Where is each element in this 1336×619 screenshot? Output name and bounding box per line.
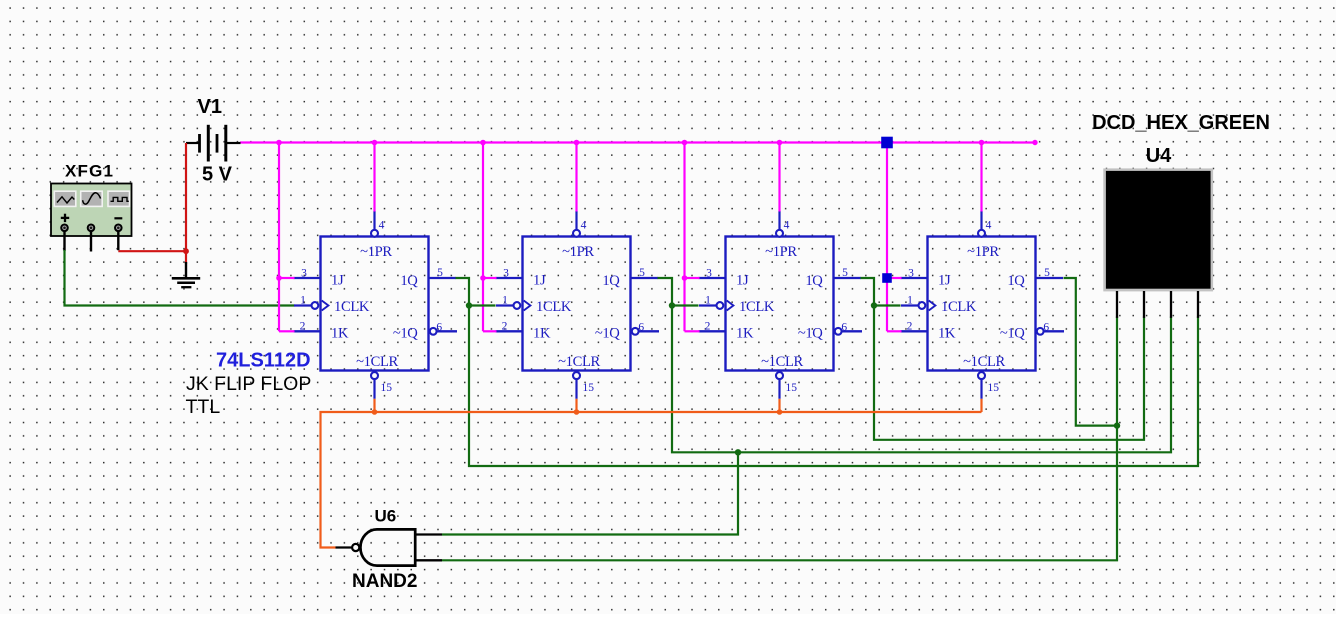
svg-text:NAND2: NAND2 (352, 571, 417, 592)
pin 1CLK bubble FF2 (514, 302, 521, 309)
svg-text:1Q: 1Q (805, 273, 823, 289)
svg-text:1K: 1K (736, 325, 754, 341)
node CLR bus junction FF1 (372, 409, 378, 415)
node rail junction PR FF1 (372, 140, 378, 146)
svg-text:1K: 1K (331, 325, 349, 341)
svg-text:~1Q: ~1Q (1000, 325, 1025, 341)
node FF4 Q / display pin1 junction (1114, 422, 1120, 428)
pin 5 stub 1Q FF2 (631, 277, 659, 279)
svg-text:~1Q: ~1Q (595, 325, 620, 341)
svg-text:~1Q: ~1Q (393, 325, 418, 341)
pin 1CLK bubble FF4 (919, 302, 926, 309)
node FF3 Q / FF4 CLK junction (871, 302, 877, 308)
pin 1 stub 1CLK FF2 (496, 304, 513, 306)
pin 5 stub 1Q FF4 (1036, 277, 1064, 279)
pin display 2 (1143, 291, 1145, 318)
pin 4 stub FF4 (980, 211, 982, 230)
wire ~1CLR to bus FF3 (orange) (778, 399, 780, 412)
svg-text:1: 1 (502, 295, 508, 307)
svg-text:15: 15 (988, 382, 1000, 394)
svg-text:~1PR: ~1PR (967, 244, 999, 260)
pin 2 stub 1K FF3 (699, 330, 726, 332)
pin 1 stub 1CLK FF4 (901, 304, 918, 306)
svg-text:5: 5 (1044, 267, 1050, 279)
svg-text:3: 3 (503, 267, 509, 279)
pin display 4 (1197, 291, 1199, 318)
pin 5 stub 1Q FF1 (429, 277, 457, 279)
svg-text:TTL: TTL (186, 396, 221, 418)
node CLR bus junction FF3 (777, 409, 783, 415)
pin 6 stub ~1Q FF2 (639, 330, 659, 332)
svg-text:JK FLIP FLOP: JK FLIP FLOP (186, 373, 311, 395)
wire VCC to ~1PR FF3 (magenta) (778, 143, 780, 212)
node red junction (183, 248, 189, 254)
svg-text:2: 2 (300, 320, 306, 332)
node J junction FF3 (682, 275, 688, 281)
pin 15 stub FF2 (575, 379, 577, 399)
wire VCC to 1J/1K FF1 (magenta) (279, 143, 295, 332)
pin ~1Q bubble FF2 (632, 328, 639, 335)
pin 1 stub 1CLK FF3 (699, 304, 716, 306)
svg-text:~1CLR: ~1CLR (356, 354, 398, 370)
svg-text:2: 2 (705, 320, 711, 332)
pin ~1CLR bubble FF2 (573, 372, 580, 379)
wire VCC to ~1PR FF1 (magenta) (373, 143, 375, 212)
node blue square on rail (881, 137, 893, 149)
svg-text:1CLK: 1CLK (334, 299, 370, 315)
pin 6 stub ~1Q FF1 (437, 330, 457, 332)
wire XFG1 terminal leads (65, 231, 119, 252)
wire VCC power rail (240, 141, 1035, 143)
node FF2 Q / FF3 CLK junction (669, 302, 675, 308)
wire NAND output to ~CLR bus (orange) (321, 412, 982, 548)
wire VCC to ~1PR FF2 (magenta) (575, 143, 577, 212)
wire battery negative to ground (red) (118, 143, 186, 264)
svg-text:U6: U6 (375, 507, 397, 526)
pin ~1PR bubble FF4 (978, 230, 985, 237)
svg-text:1J: 1J (331, 273, 344, 289)
svg-text:1: 1 (907, 295, 913, 307)
node NAND tap junction (735, 449, 741, 455)
pin 1CLK bubble FF1 (312, 302, 319, 309)
JK flip-flop 3 (74LS112D) (726, 237, 834, 371)
battery V1 (186, 125, 241, 162)
pin 1CLK bubble FF3 (717, 302, 724, 309)
svg-text:~1CLR: ~1CLR (963, 354, 1005, 370)
pin ~1CLR bubble FF1 (371, 372, 378, 379)
svg-text:15: 15 (381, 382, 393, 394)
svg-text:1: 1 (300, 295, 306, 307)
wire FF3 1Q to FF4 CLK and display pin2 (green) (861, 278, 1145, 440)
wire ~1CLR to bus FF2 (orange) (575, 399, 577, 412)
pin 4 stub FF2 (575, 211, 577, 230)
svg-text:6: 6 (638, 322, 644, 334)
pin 15 stub FF4 (980, 379, 982, 399)
wire FF1 1Q to FF2 CLK and display pin4 (green) (456, 278, 1199, 466)
pin 3 stub 1J FF2 (496, 277, 523, 279)
pin ~1PR bubble FF3 (776, 230, 783, 237)
wire VCC to 1J/1K FF2 (magenta) (483, 143, 497, 332)
wire FF4 1Q to display pin1 and NAND input B (green) (1064, 278, 1118, 426)
svg-text:4: 4 (784, 220, 790, 232)
svg-text:2: 2 (907, 320, 913, 332)
wire VCC to 1J/1K FF4 (magenta) (887, 143, 902, 332)
node rail junction PR FF3 (777, 140, 783, 146)
wire ~1CLR to bus FF4 (orange) (980, 399, 982, 412)
pin ~1CLR bubble FF3 (776, 372, 783, 379)
node rail junction JK FF3 (682, 140, 688, 146)
svg-text:1: 1 (705, 295, 711, 307)
svg-text:1Q: 1Q (400, 273, 418, 289)
wire VCC to ~1PR FF4 (magenta) (980, 143, 982, 212)
svg-text:4: 4 (379, 220, 385, 232)
node rail junction JK FF2 (480, 140, 486, 146)
JK flip-flop 1 (74LS112D) (321, 237, 429, 371)
svg-text:1J: 1J (533, 273, 546, 289)
svg-text:3: 3 (301, 267, 307, 279)
svg-text:3: 3 (908, 267, 914, 279)
nand gate U6 (336, 529, 443, 565)
function generator XFG1 (51, 184, 132, 237)
pin 1 stub 1CLK FF1 (294, 304, 311, 306)
node rail junction PR FF2 (574, 140, 580, 146)
svg-text:1Q: 1Q (1007, 273, 1025, 289)
pin 3 stub 1J FF1 (294, 277, 321, 279)
pin 5 stub 1Q FF3 (834, 277, 862, 279)
pin 2 stub 1K FF2 (496, 330, 523, 332)
svg-text:1CLK: 1CLK (536, 299, 572, 315)
svg-text:2: 2 (502, 320, 508, 332)
hex display U4 (1103, 168, 1213, 291)
svg-text:~1PR: ~1PR (765, 244, 797, 260)
node rail junction JK FF1 (276, 140, 282, 146)
node J junction FF1 (276, 275, 282, 281)
pin ~1CLR bubble FF4 (978, 372, 985, 379)
svg-text:1J: 1J (938, 273, 951, 289)
wire ~1CLR to bus FF1 (orange) (373, 399, 375, 412)
svg-text:~1CLR: ~1CLR (761, 354, 803, 370)
pin 6 stub ~1Q FF3 (842, 330, 862, 332)
wire XFG1 + output to CLK (green) (65, 250, 295, 306)
svg-text:V1: V1 (198, 96, 222, 118)
pin ~1PR bubble FF2 (573, 230, 580, 237)
svg-text:DCD_HEX_GREEN: DCD_HEX_GREEN (1092, 112, 1270, 134)
svg-text:5: 5 (437, 267, 443, 279)
pin ~1Q bubble FF4 (1037, 328, 1044, 335)
svg-text:5: 5 (639, 267, 645, 279)
wire FF2 Q to NAND input A (green) (442, 452, 738, 534)
svg-text:1J: 1J (736, 273, 749, 289)
pin 3 stub 1J FF4 (901, 277, 928, 279)
JK flip-flop 2 (74LS112D) (523, 237, 631, 371)
pin 2 stub 1K FF4 (901, 330, 928, 332)
svg-text:U4: U4 (1146, 145, 1172, 167)
svg-text:3: 3 (706, 267, 712, 279)
pin 4 stub FF3 (778, 211, 780, 230)
svg-text:6: 6 (841, 322, 847, 334)
node rail end (1032, 140, 1037, 145)
pin 15 stub FF1 (373, 379, 375, 399)
svg-text:6: 6 (436, 322, 442, 334)
svg-text:15: 15 (786, 382, 798, 394)
svg-text:74LS112D: 74LS112D (216, 350, 311, 372)
node blue square at FF4 1J (882, 273, 892, 283)
pin 15 stub FF3 (778, 379, 780, 399)
svg-text:1CLK: 1CLK (941, 299, 977, 315)
pin 3 stub 1J FF3 (699, 277, 726, 279)
pin 4 stub FF1 (373, 211, 375, 230)
svg-text:XFG1: XFG1 (65, 162, 114, 181)
svg-text:6: 6 (1043, 322, 1049, 334)
svg-text:~1CLR: ~1CLR (558, 354, 600, 370)
node rail junction PR FF4 (979, 140, 985, 146)
svg-text:5 V: 5 V (202, 164, 233, 186)
wire FF2 1Q to FF3 CLK and display pin3 (green) (658, 278, 1172, 452)
wire VCC to 1J/1K FF3 (magenta) (685, 143, 700, 332)
svg-text:15: 15 (583, 382, 595, 394)
pin ~1Q bubble FF3 (835, 328, 842, 335)
svg-text:~1PR: ~1PR (562, 244, 594, 260)
svg-text:1Q: 1Q (602, 273, 620, 289)
pin ~1Q bubble FF1 (430, 328, 437, 335)
svg-text:1K: 1K (938, 325, 956, 341)
svg-text:1K: 1K (533, 325, 551, 341)
pin 6 stub ~1Q FF4 (1044, 330, 1064, 332)
pin display 1 (1116, 291, 1118, 318)
JK flip-flop 4 (74LS112D) (928, 237, 1036, 371)
svg-text:4: 4 (986, 220, 992, 232)
node CLR bus junction FF2 (574, 409, 580, 415)
pin ~1PR bubble FF1 (371, 230, 378, 237)
node FF1 Q / FF2 CLK junction (466, 302, 472, 308)
svg-text:~1PR: ~1PR (360, 244, 392, 260)
node J junction FF2 (480, 275, 486, 281)
svg-text:5: 5 (842, 267, 848, 279)
svg-text:1CLK: 1CLK (739, 299, 775, 315)
pin display 3 (1170, 291, 1172, 318)
svg-text:4: 4 (581, 220, 587, 232)
svg-text:~1Q: ~1Q (798, 325, 823, 341)
pin 2 stub 1K FF1 (294, 330, 321, 332)
ground (172, 262, 200, 287)
